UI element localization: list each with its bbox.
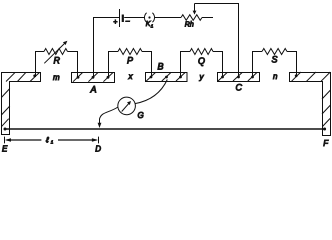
block A (72, 73, 115, 83)
svg-text:R: R (54, 56, 61, 66)
svg-text:B: B (158, 62, 164, 72)
rheostat Rh zigzag (181, 15, 202, 21)
rheostat wiper arrow (193, 4, 197, 15)
resistor Q leads (181, 52, 191, 78)
svg-text:Rh: Rh (185, 22, 194, 29)
wire galvanometer to jockey (100, 107, 119, 124)
battery E cell (120, 9, 123, 27)
svg-text:n: n (273, 72, 278, 81)
resistor R leads (36, 52, 45, 78)
right corner copper strip F (290, 72, 331, 136)
rheostat right stub wire (open end) (202, 17, 213, 19)
block C (218, 72, 260, 81)
wire battery to key K1 (124, 17, 144, 19)
svg-text:A: A (90, 85, 97, 95)
svg-text:E: E (2, 145, 8, 153)
top wire wiper to right vertical (195, 4, 239, 78)
left corner copper strip E (1, 72, 40, 134)
label l1 (45, 136, 54, 145)
galvanometer needle (122, 101, 131, 112)
block B (146, 72, 188, 81)
resistor S zigzag (262, 49, 287, 55)
svg-text:S: S (272, 55, 278, 65)
svg-text:+: + (113, 19, 117, 26)
wire key to rheostat (155, 17, 181, 19)
wire block B to galvanometer (135, 80, 167, 104)
resistor R variable arrow (44, 41, 67, 64)
svg-text:P: P (127, 56, 133, 66)
svg-text:Q: Q (198, 56, 205, 66)
svg-text:ℓ: ℓ (45, 136, 49, 145)
svg-text:m: m (53, 73, 60, 82)
svg-text:D: D (95, 145, 101, 153)
resistor R zigzag (44, 49, 68, 55)
label K1 (146, 21, 154, 28)
dimension ticks at E and D (4, 137, 6, 144)
svg-text:G: G (138, 111, 144, 120)
resistor Q zigzag (190, 49, 213, 55)
svg-text:–: – (125, 18, 130, 25)
svg-text:C: C (236, 83, 243, 93)
key K1 symbol (144, 13, 154, 23)
wire battery-left vertical to block A (94, 18, 120, 78)
resistor S leads (253, 52, 263, 78)
jockey arrow at D (98, 123, 102, 128)
resistor P zigzag (118, 49, 142, 55)
resistor P leads (109, 52, 119, 78)
galvanometer G circle (118, 97, 136, 115)
dimension line l1 with arrows (5, 138, 98, 141)
bridge wire E-F (5, 128, 325, 130)
